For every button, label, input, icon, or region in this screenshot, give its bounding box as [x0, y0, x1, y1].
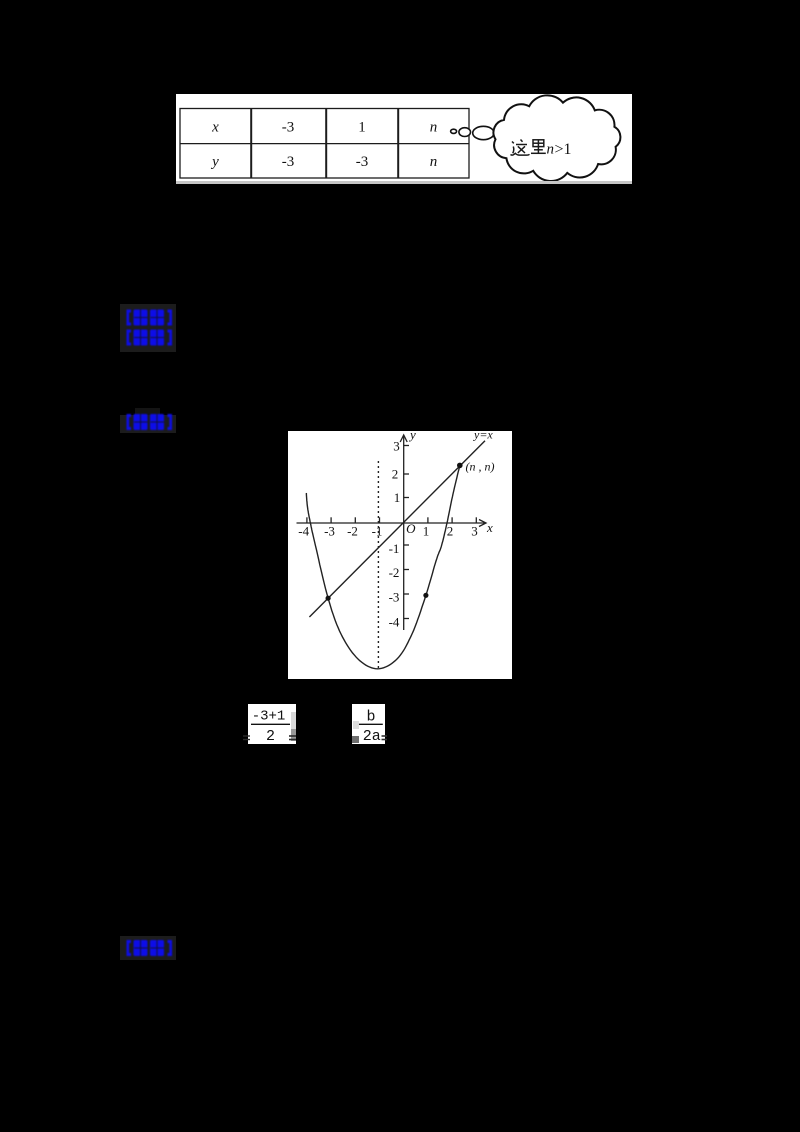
graph image block [288, 431, 512, 679]
svg-text:n: n [430, 120, 438, 136]
svg-text:-3: -3 [356, 154, 369, 170]
svg-text:-3: -3 [389, 590, 400, 605]
table row 2 text [210, 154, 437, 170]
x axis [297, 522, 486, 524]
svg-text:3: 3 [471, 524, 478, 539]
svg-text:x: x [486, 520, 493, 535]
thought cloud [493, 95, 620, 181]
svg-text:-3+1: -3+1 [252, 709, 286, 725]
table image block (white) [176, 94, 632, 181]
svg-text:y=x: y=x [473, 431, 493, 442]
dotted line x=-1 [377, 461, 379, 668]
y ticks [404, 445, 409, 447]
svg-text:(n , n): (n , n) [466, 460, 495, 474]
svg-text:2: 2 [392, 467, 399, 482]
svg-text:-4: -4 [389, 615, 400, 630]
svg-text:2: 2 [447, 524, 454, 539]
svg-text:2a: 2a [363, 728, 381, 745]
这 [521, 140, 523, 142]
dots [326, 596, 331, 601]
left faint = [243, 736, 250, 740]
blue heading block 2 [135, 408, 160, 416]
svg-text:O: O [406, 521, 416, 536]
svg-text:1: 1 [394, 490, 401, 505]
line y=x [309, 441, 485, 617]
svg-text:n: n [547, 142, 555, 158]
svg-text:2: 2 [266, 728, 275, 745]
fraction B: b/2a [352, 704, 385, 744]
table grid [180, 109, 469, 179]
svg-text:1: 1 [423, 524, 430, 539]
svg-text:-2: -2 [389, 565, 400, 580]
svg-text:-3: -3 [324, 524, 335, 539]
grey strip at image bottom [176, 181, 632, 184]
里 [533, 140, 544, 147]
svg-text:-1: -1 [389, 541, 400, 556]
svg-text:y: y [210, 154, 219, 170]
svg-text:1: 1 [358, 120, 366, 136]
blue heading block 3 [120, 936, 176, 960]
svg-text:-2: -2 [347, 524, 358, 539]
svg-text:n: n [430, 154, 438, 170]
svg-text:y: y [408, 431, 416, 442]
svg-text:-4: -4 [298, 524, 309, 539]
svg-text:3: 3 [393, 439, 400, 454]
cloud text: 这里 drawn as strokes [511, 140, 546, 156]
labels [298, 427, 494, 630]
fraction A: (-3+1)/2 [248, 704, 296, 744]
table row 1 text [211, 120, 437, 136]
right = [289, 736, 296, 740]
svg-text:-1: -1 [372, 524, 383, 539]
svg-text:-3: -3 [282, 120, 295, 136]
x ticks [306, 517, 308, 523]
parabola [306, 465, 460, 668]
svg-text:>1: >1 [555, 141, 572, 158]
svg-text:b: b [366, 709, 375, 726]
svg-text:-3: -3 [282, 154, 295, 170]
thought bubbles [451, 126, 494, 139]
blue heading block 1 [120, 304, 176, 352]
y axis [403, 436, 405, 630]
svg-text:x: x [211, 120, 219, 136]
